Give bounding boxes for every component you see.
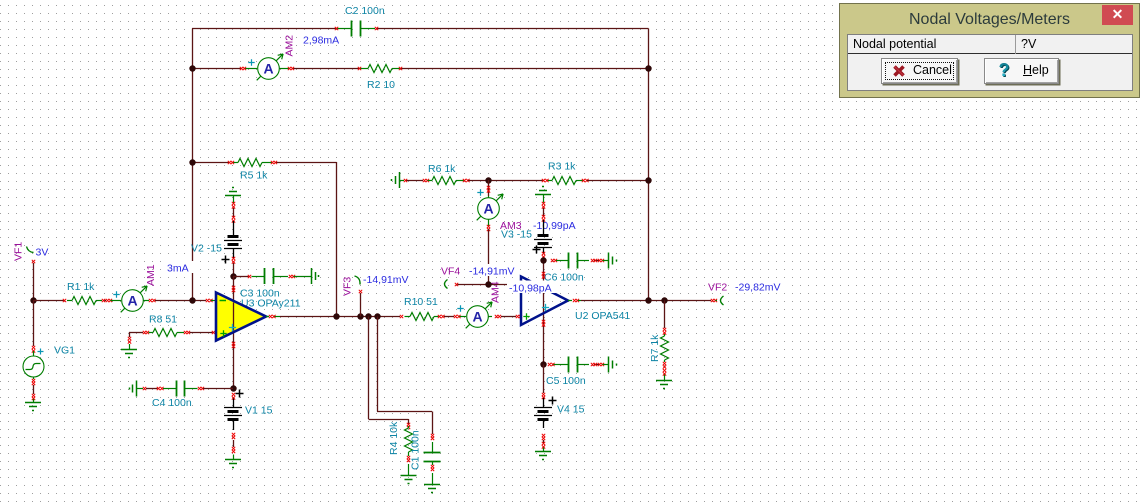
pin VF1 hook <box>27 247 34 253</box>
wire R6 to node, node to R3 <box>468 180 543 182</box>
wire AM3 down to VF4 node <box>488 229 490 284</box>
pin marks C5 left <box>548 363 551 366</box>
pin marks R4 bottom <box>407 456 410 459</box>
pin marks U3 output <box>269 315 272 318</box>
capacitor C3 <box>252 268 289 284</box>
svg-text:C2 100n: C2 100n <box>345 5 385 17</box>
svg-text:VF4: VF4 <box>441 266 460 278</box>
dialog Nodal Voltages/Meters <box>839 3 1140 98</box>
wire V4 to ground <box>543 440 545 443</box>
svg-text:-14,91mV: -14,91mV <box>469 266 515 278</box>
junction dot C4 node <box>230 385 236 391</box>
wire R8 to U3 plus <box>190 332 213 334</box>
resistor R4 <box>405 426 413 456</box>
svg-text:U2 OPA541: U2 OPA541 <box>575 310 630 322</box>
svg-text:C4 100n: C4 100n <box>152 397 192 409</box>
pin marks R6 left <box>404 179 407 182</box>
resistor R7 <box>661 334 669 362</box>
plus mark AM1 <box>113 291 119 297</box>
wire node down to VG1 <box>33 301 35 347</box>
svg-text:A: A <box>483 200 493 216</box>
value AM3 -10,99pA <box>531 219 580 231</box>
ammeter AM1 <box>121 286 147 312</box>
wire R3 to right rail <box>587 180 649 182</box>
pin marks R8 left <box>143 331 146 334</box>
ground above V3 (inverted) <box>535 194 551 196</box>
pin marks V1 ground <box>232 447 235 450</box>
pin mark VF4 <box>455 283 458 286</box>
ammeter AM1 leads <box>111 300 122 302</box>
pin marks AM3 top <box>487 186 490 189</box>
wire C5 node to V4 <box>543 365 545 394</box>
pin VF4 hook <box>445 280 448 289</box>
junction dot right rail output <box>645 297 651 303</box>
pin marks C3 right <box>289 275 292 278</box>
ammeter AM4 leads <box>460 316 467 318</box>
ground right end of C5 <box>603 364 609 366</box>
junction dot VG1 node <box>30 297 36 303</box>
ground above V2 (inverted) <box>225 195 241 197</box>
wire R5 row y=162 <box>192 162 229 164</box>
junction dot R5-left-rail <box>189 159 195 165</box>
wire AM1 to U3 minus <box>155 300 206 302</box>
junction dot R7 tap <box>661 297 667 303</box>
wire C4 to power node <box>203 388 233 390</box>
ammeter AM4 <box>466 302 492 328</box>
svg-text:C1 100n: C1 100n <box>410 430 422 470</box>
wire VF3 stub <box>360 293 362 317</box>
capacitor C2 <box>337 21 375 37</box>
ground V4 <box>543 448 545 452</box>
pin marks AM4 right <box>495 315 498 318</box>
Cancel button <box>881 58 958 84</box>
junction dot left rail input <box>189 297 195 303</box>
svg-text:-10,99pA: -10,99pA <box>533 220 576 232</box>
svg-text:AM1: AM1 <box>145 264 157 286</box>
pin marks V1 bottom <box>232 433 235 436</box>
pin marks C5 right <box>594 364 600 366</box>
svg-text:R7 1k: R7 1k <box>649 334 661 362</box>
wire R1 row <box>33 300 64 302</box>
junction dot feedback <box>333 313 339 319</box>
junction dot C3 node <box>230 273 236 279</box>
plus mark AM3 <box>477 189 483 195</box>
op-amp U3 <box>216 293 266 341</box>
plus mark V1 <box>236 390 244 398</box>
plus mark VG1 <box>38 349 44 355</box>
pin marks R10 left <box>400 315 403 318</box>
pin marks V3 top <box>543 194 545 203</box>
pin marks C6 left <box>551 259 554 262</box>
svg-text:R3 1k: R3 1k <box>548 161 576 173</box>
capacitor C4 <box>163 381 198 397</box>
pin marks V4 top <box>542 393 545 396</box>
pin marks AM2 <box>240 67 243 70</box>
pin marks R8 right <box>184 331 187 334</box>
pin marks U3 plus input <box>212 331 215 334</box>
svg-text:2,98mA: 2,98mA <box>303 35 339 47</box>
plus mark V4 <box>549 397 557 405</box>
pin marks U3 power bottom <box>232 342 235 345</box>
ground R8 <box>121 349 137 351</box>
pin marks C6 right <box>594 260 600 262</box>
pin marks R1 left <box>63 299 66 302</box>
value VF3 -14,91mV <box>361 273 411 285</box>
pin marks VG1 top <box>32 346 35 349</box>
svg-text:R1 1k: R1 1k <box>67 281 95 293</box>
value VF4 -14,91mV <box>467 264 517 276</box>
svg-text:R8 51: R8 51 <box>149 314 177 326</box>
svg-text:R2 10: R2 10 <box>367 79 395 91</box>
svg-text:V2 -15: V2 -15 <box>191 243 222 255</box>
svg-text:VF3: VF3 <box>342 277 354 296</box>
pin marks U2 plus input <box>516 315 519 318</box>
svg-text:R10 51: R10 51 <box>404 296 438 308</box>
resistor R1 <box>67 297 102 305</box>
pin marks U3 minus input <box>206 299 209 302</box>
pin marks V2 bottom <box>232 257 235 260</box>
svg-text:V4 15: V4 15 <box>557 404 585 416</box>
wire top rail y=28.5 (C2 branch) <box>192 28 337 30</box>
junction dot R4 branch <box>365 313 371 319</box>
pin marks V4 bottom <box>542 434 545 437</box>
junction dot right rail y=180 <box>645 177 651 183</box>
svg-text:C5 100n: C5 100n <box>546 375 586 387</box>
pin marks U3 power top <box>232 286 235 289</box>
pin marks R8 ground <box>129 344 131 349</box>
wire segment inside U3 <box>233 303 235 331</box>
capacitor C6 <box>556 253 589 269</box>
junction dot VF3 <box>357 313 363 319</box>
svg-text:?: ? <box>999 61 1010 80</box>
value AM4 -10,98pA <box>507 281 558 294</box>
pin marks R7 top <box>663 328 666 331</box>
pin marks V1 top <box>232 393 235 396</box>
wire AM3 branch upper <box>488 180 490 196</box>
wire U3 output row <box>280 316 400 318</box>
battery V1 <box>224 399 242 431</box>
generator VG1 <box>23 351 44 377</box>
pin marks VF2 <box>711 299 714 302</box>
wire C4 ground to cap <box>146 388 158 390</box>
svg-text:VG1: VG1 <box>54 345 75 357</box>
svg-text:3V: 3V <box>36 247 49 259</box>
junction dot AM3 tap <box>485 177 491 183</box>
svg-text:V3 -15: V3 -15 <box>501 229 532 241</box>
Help button <box>984 58 1059 84</box>
svg-text:VF1: VF1 <box>13 242 25 261</box>
pin VF2 hook <box>716 300 718 302</box>
wire AM2 row y=68 <box>192 68 241 70</box>
pin marks V3 bottom <box>542 252 545 255</box>
wire right rail x=648.5 <box>648 29 650 301</box>
junction dots row 68 <box>189 65 195 71</box>
ground R7 <box>664 375 666 381</box>
wire AM4 to U2 plus <box>501 316 516 318</box>
value VF2 -29,82mV <box>733 280 785 292</box>
junction dot VF4/AM3 <box>485 281 491 287</box>
value AM2 2,98mA <box>301 33 348 45</box>
U2 plus signs <box>523 313 529 319</box>
pin marks V4 ground <box>542 442 545 445</box>
battery V4 <box>534 398 552 428</box>
svg-text:A: A <box>127 292 137 308</box>
pin VF3 hook <box>355 276 361 285</box>
svg-text:-29,82mV: -29,82mV <box>735 282 781 294</box>
pin marks R4 top <box>407 423 410 426</box>
pin marks U2 power top <box>542 272 545 275</box>
ground left end of R6 <box>399 172 401 188</box>
wire R4 branch <box>368 317 370 420</box>
wire V1 to ground <box>233 440 235 447</box>
pin marks V2 top / leads <box>233 195 235 203</box>
pin marks C4 right <box>198 387 201 390</box>
svg-text:3mA: 3mA <box>167 263 189 275</box>
plus mark V2 <box>222 256 230 264</box>
pin marks R2 <box>358 67 361 70</box>
U3 plus signs <box>220 330 226 336</box>
ammeter AM2 <box>257 54 283 80</box>
pin marks C1 top <box>431 434 434 437</box>
wire R8 corner <box>129 332 131 337</box>
wire VF1 down to node <box>33 263 35 301</box>
battery V2 <box>224 221 242 258</box>
junction dot C5 node <box>540 361 546 367</box>
pin marks AM3 bottom <box>487 225 490 228</box>
capacitor C1 <box>424 442 441 465</box>
pin marks R6 right <box>463 179 466 182</box>
svg-text:AM2: AM2 <box>284 35 296 57</box>
wire VF4 row to U2 minus <box>458 284 522 286</box>
plus mark AM2 <box>248 59 254 65</box>
svg-text:A: A <box>263 60 273 76</box>
wire V2 to C3 node <box>233 263 235 276</box>
pin mark C4 ground <box>137 388 144 390</box>
wire R1 to AM1 <box>105 300 107 302</box>
svg-text:VF2: VF2 <box>708 282 727 294</box>
plus mark V3 <box>533 246 541 254</box>
svg-text:R5 1k: R5 1k <box>240 170 268 182</box>
wire left rail x=192 <box>192 29 194 301</box>
pin marks R7 bottom <box>663 362 666 365</box>
svg-text:R4 10k: R4 10k <box>388 421 400 455</box>
resistor R2 <box>360 65 400 73</box>
svg-text:V1 15: V1 15 <box>245 405 273 417</box>
pin marks AM1 right <box>149 299 152 302</box>
ground V1 <box>233 455 235 460</box>
pin marks VG1 bottom <box>33 377 35 379</box>
pin marks C4 left <box>157 387 160 390</box>
wire R7 branch <box>664 301 666 329</box>
wire U2 power rail x=543 <box>543 261 545 365</box>
pin marks R5 <box>228 161 231 164</box>
wire U2 output row <box>581 300 711 302</box>
resistor R10 <box>405 313 439 321</box>
wire R10 to AM4 <box>444 316 454 318</box>
pin mark C3 left <box>248 275 251 278</box>
capacitor C5 <box>554 357 590 373</box>
svg-text:-10,98pA: -10,98pA <box>509 283 552 295</box>
resistor R8 <box>149 329 185 337</box>
ammeter AM3 <box>477 194 503 220</box>
svg-text:A: A <box>472 308 482 324</box>
ground C1 <box>432 473 434 484</box>
ground right end of C3 <box>294 276 312 278</box>
pin marks U2 output <box>573 299 576 302</box>
pin marks R1 right <box>102 299 105 302</box>
ground R4 <box>408 464 410 476</box>
pin marks U2 power bottom <box>542 320 545 323</box>
pin marks R3 <box>542 179 545 182</box>
U3 output lead <box>266 316 269 318</box>
pin marks R10 right <box>438 315 441 318</box>
wire U3 power rail x=233 <box>233 276 235 389</box>
wire C3 row <box>233 276 249 278</box>
junction dot C1 branch <box>374 313 380 319</box>
battery V3 <box>534 220 552 253</box>
pin mark VF1 <box>32 260 35 263</box>
plus mark AM4 <box>457 305 463 311</box>
resistor R5 <box>233 159 272 167</box>
pin marks C1 bottom <box>431 465 434 468</box>
ammeter AM2 leads <box>245 68 258 70</box>
U3 minus sign <box>220 300 227 302</box>
op-amp U2 <box>521 277 568 326</box>
resistor R6 <box>428 177 465 185</box>
value AM1 3mA <box>165 261 195 273</box>
ground left end of C4 <box>136 381 138 397</box>
pin marks VG1 ground <box>32 394 35 397</box>
U2 output lead <box>568 300 572 302</box>
ammeter AM3 leads <box>488 196 490 198</box>
wire VG1 to ground <box>33 385 35 394</box>
svg-text:R6 1k: R6 1k <box>428 163 456 175</box>
wire R6 row <box>399 180 404 182</box>
svg-text:-14,91mV: -14,91mV <box>363 274 409 286</box>
ground VG1 <box>33 399 35 403</box>
pin mark VF3 <box>359 290 362 293</box>
resistor R3 <box>547 177 583 185</box>
pin marks C2 <box>335 27 338 30</box>
wire feedback down x=336.5 <box>336 162 338 317</box>
pin marks AM4 left <box>454 315 457 318</box>
ground right end of C6 <box>603 260 609 262</box>
wire C1 branch <box>377 317 379 412</box>
